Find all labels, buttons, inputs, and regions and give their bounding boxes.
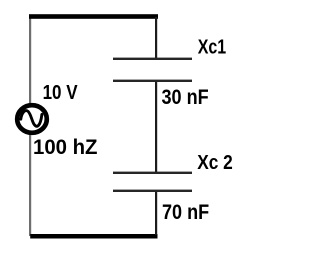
svg-text:70 nF: 70 nF [162,201,209,225]
AC source V1 circle [17,105,47,133]
svg-text:30 nF: 30 nF [162,86,209,110]
wire right middle segment [155,81,157,173]
AC source V1 sine wave [21,111,42,127]
wire left (source branch, gray vertical) [29,15,31,236]
svg-text:Xc1: Xc1 [198,36,226,58]
wire right lower segment [155,191,157,235]
wire right upper segment [155,17,157,59]
svg-text:100 hZ: 100 hZ [33,136,98,159]
svg-text:Xc 2: Xc 2 [197,151,233,173]
capacitor C2 top plate [113,172,192,174]
capacitor C1 top plate [113,58,192,60]
svg-text:10 V: 10 V [43,80,79,103]
wire bottom (thick horizontal) [30,234,157,239]
capacitor C1 bottom plate [113,80,192,82]
capacitor C2 bottom plate [113,190,192,192]
wire top (thick horizontal) [29,14,158,19]
